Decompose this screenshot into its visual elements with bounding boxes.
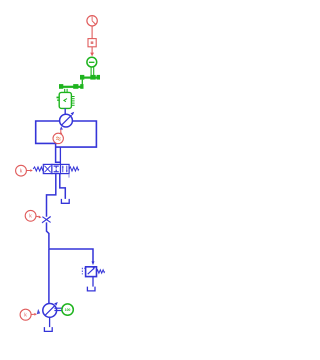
pump P2 control input arrowhead <box>37 309 41 314</box>
valve V1 left spring <box>33 167 43 171</box>
wire branch junction to relief valve RV1 <box>49 249 93 262</box>
pressure sensor PS1 <box>53 133 63 143</box>
gear element G2 <box>59 84 84 89</box>
pump P2 (variable displacement flow source) <box>43 302 58 317</box>
wire relief valve to tank T2 <box>92 277 94 287</box>
motor M1 body <box>59 92 71 108</box>
variable orifice OR1 <box>42 217 50 223</box>
motor M1 right comb <box>72 97 75 106</box>
motor M1 left port dashes <box>57 97 60 101</box>
shaft double line S1 to gear G1 <box>91 67 94 76</box>
wire loop drop to valve V1 (right) <box>59 147 61 164</box>
valve V1 left cell crossed arrows <box>44 166 50 173</box>
wire loop pump inlet left <box>36 121 60 143</box>
clock source CLK1 <box>87 16 97 26</box>
svg-text:100: 100 <box>65 308 71 312</box>
svg-text:k: k <box>24 313 27 319</box>
variable orifice OR1 arrow <box>42 216 51 223</box>
wire junction down to pump P2 <box>48 249 50 304</box>
speed constant W1 (green, 100) <box>62 304 73 315</box>
shaft flange pump P2 to speed const <box>54 308 61 310</box>
pump P1 control input arrowhead <box>60 126 63 129</box>
wire loop drop to valve V1 (left) <box>56 143 61 162</box>
relief valve RV1 pilot dashed line <box>82 268 85 274</box>
constant k1 arrow to valve <box>27 170 31 172</box>
wire box to speed source with arrowhead <box>91 47 93 53</box>
signal block B1 <box>88 39 96 47</box>
constant k3 <box>20 309 31 320</box>
wire pump P2 to tank T3 <box>49 317 51 327</box>
svg-text:k: k <box>20 169 23 175</box>
wire motor to pump P1 <box>64 108 66 114</box>
pump P1 (variable displacement) <box>60 112 75 127</box>
wire orifice down to junction <box>47 222 49 249</box>
valve V1 right cell parallel arrows <box>62 166 68 173</box>
svg-text:k: k <box>29 214 32 220</box>
relief valve RV1 <box>86 267 97 277</box>
tank T1 <box>61 199 69 203</box>
valve V1 right spring <box>69 167 79 171</box>
pressure sensor PS1 signal wire <box>60 129 62 132</box>
gear element G1 <box>80 75 100 80</box>
tank T3 <box>44 327 52 331</box>
constant k2 arrow to orifice <box>36 215 39 218</box>
constant k1 <box>16 165 27 176</box>
motor M1 inner mark <box>64 99 67 102</box>
shaft stub G1 to G2 <box>81 80 83 85</box>
valve V1 body <box>43 164 69 173</box>
wire loop pump outlet right <box>56 121 97 147</box>
tank T2 <box>87 287 95 291</box>
shaft double line G2 to motor M1 <box>65 89 67 93</box>
wire valve port P down-left to orifice <box>47 174 56 217</box>
constant k3 arrow to pump P2 <box>31 313 34 315</box>
valve V1 middle cell closed <box>54 166 59 172</box>
pressure sensor PS1 output arrow <box>59 131 62 134</box>
speed source S1 (green circle) <box>87 57 97 67</box>
relief valve RV1 spring <box>97 270 105 273</box>
wire valve port T down-right to tank T1 <box>60 174 66 199</box>
wire clock to ramp box <box>91 26 93 38</box>
constant k2 <box>25 210 36 221</box>
valve V1 unused port stub <box>68 174 70 178</box>
